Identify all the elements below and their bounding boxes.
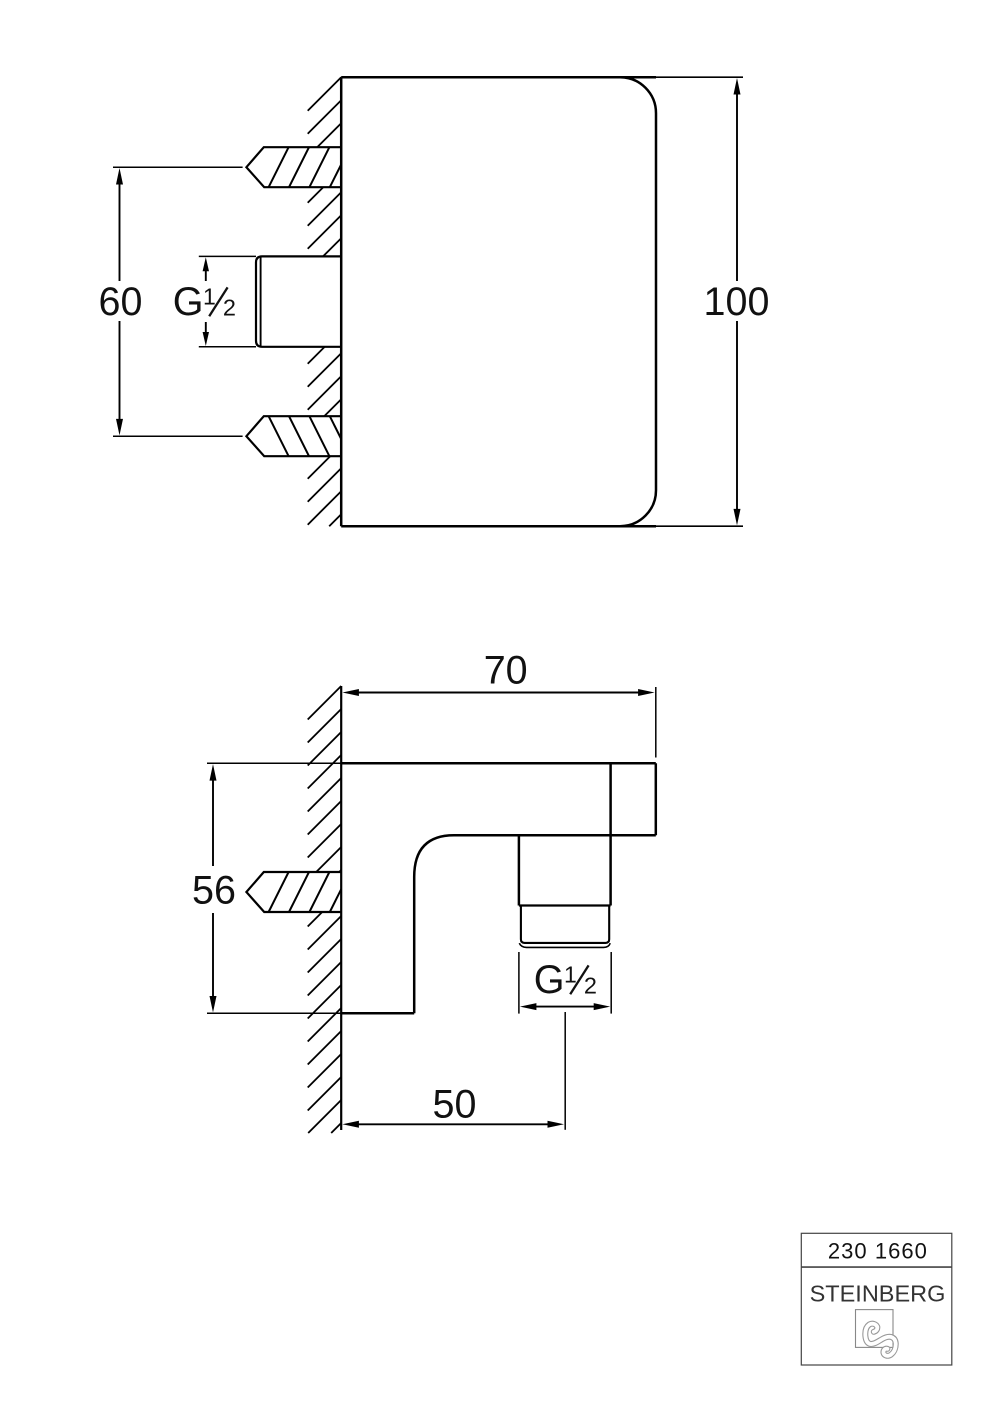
dimension G1/2 (side view): extension lines (519, 952, 611, 1014)
svg-text:1: 1 (203, 283, 216, 309)
title block divider line (801, 1266, 952, 1268)
dimension G1/2 (front view): extension lines (199, 256, 256, 346)
svg-text:2: 2 (584, 973, 597, 999)
upper mounting screw white mask (246, 147, 341, 187)
side view outlet end chamfer (519, 943, 610, 947)
side view body outline (341, 763, 656, 1013)
svg-text:G: G (534, 958, 565, 1002)
dimension 60: extension lines (113, 167, 243, 436)
dimension 56: dimension line with arrows (212, 778, 214, 999)
lower mounting screw white mask (246, 416, 341, 456)
dimension 70: right extension line (655, 687, 657, 758)
svg-text:50: 50 (433, 1083, 477, 1127)
side view outlet shoulder (519, 904, 611, 906)
wall hatching (side view) (308, 686, 342, 1133)
svg-text:60: 60 (99, 280, 143, 324)
side view outlet threaded section (521, 906, 609, 943)
svg-text:100: 100 (704, 280, 770, 324)
dimension 50: dimension line with arrows (357, 1123, 550, 1125)
nipple thread relief line (260, 256, 262, 346)
side view mounting screw outline (246, 872, 341, 912)
side view mounting screw thread hatch (269, 872, 342, 912)
dimension G1/2 (side view): dimension line with arrows (534, 1006, 596, 1008)
upper mounting screw thread hatch (269, 147, 342, 187)
wall surface line (side view) (340, 686, 342, 1130)
svg-text:STEINBERG: STEINBERG (810, 1280, 946, 1306)
side view mounting screw white mask (246, 872, 341, 912)
dimension 50: extension line (564, 1012, 566, 1130)
dimension 60: dimension line with arrows (119, 182, 121, 421)
lower mounting screw outline (246, 416, 341, 456)
svg-text:230 1660: 230 1660 (828, 1238, 928, 1263)
wall hatching (front view) (308, 77, 342, 526)
G1/2 wall nipple outline (front view) (256, 256, 341, 346)
dimension text G1/2 (front view) (173, 280, 236, 324)
plate bottom edge extension line (656, 525, 743, 527)
dimension 100: dimension line with arrows (736, 92, 738, 511)
svg-text:70: 70 (484, 649, 528, 693)
dimension 70: dimension line with arrows (357, 692, 640, 694)
G1/2 wall nipple white mask (256, 256, 341, 346)
svg-text:56: 56 (192, 869, 236, 913)
dimension text G1/2 (side view) (534, 958, 597, 1002)
upper mounting screw outline (246, 147, 341, 187)
lower mounting screw thread hatch (269, 416, 342, 456)
svg-text:1: 1 (564, 961, 577, 987)
Steinberg logo swirl (865, 1324, 895, 1356)
title block frame (801, 1233, 952, 1365)
mounting plate outline (front view) (341, 77, 656, 526)
dimension 56: extension lines (207, 763, 341, 1013)
plate top edge extension line (656, 76, 743, 78)
dimension G1/2 (front view): dimension line with arrows (205, 270, 207, 333)
svg-text:G: G (173, 280, 204, 324)
Steinberg logo square (856, 1310, 894, 1348)
svg-text:2: 2 (223, 295, 236, 321)
